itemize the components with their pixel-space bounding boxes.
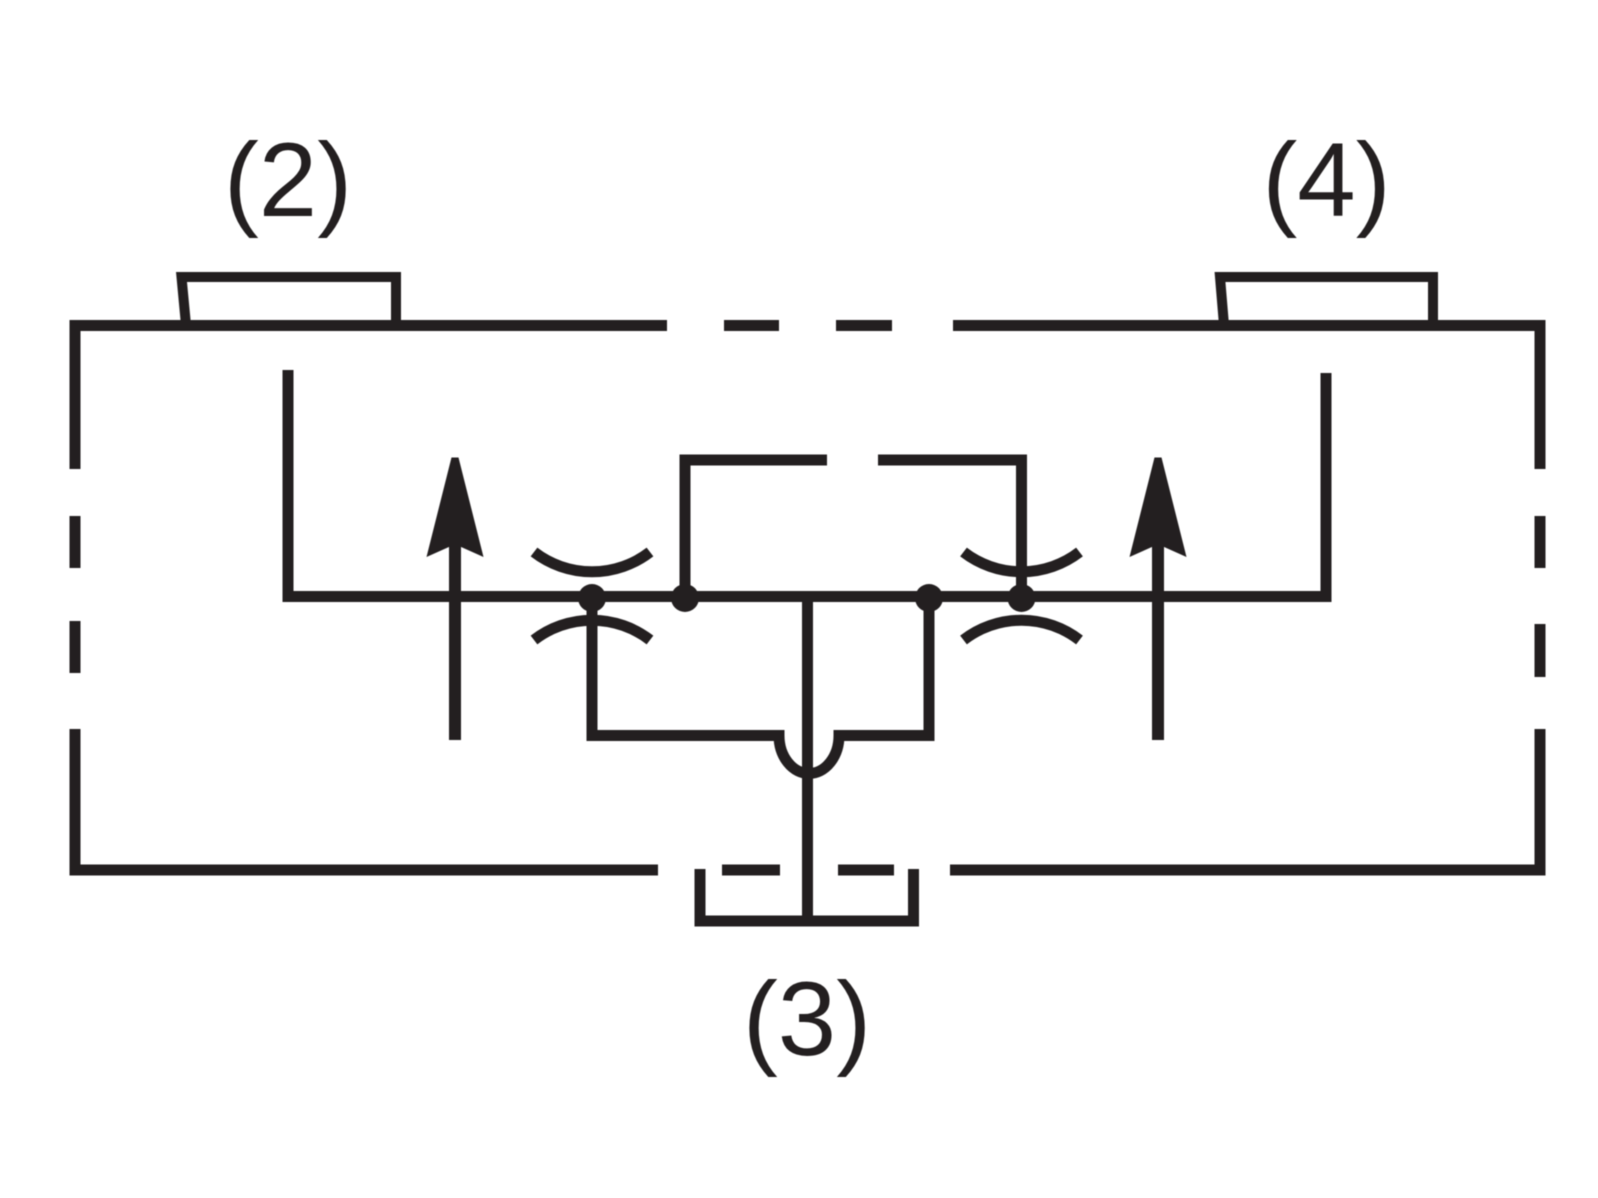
svg-text:(2): (2) [224, 122, 352, 239]
svg-text:(3): (3) [743, 961, 871, 1078]
svg-text:(4): (4) [1262, 122, 1390, 239]
